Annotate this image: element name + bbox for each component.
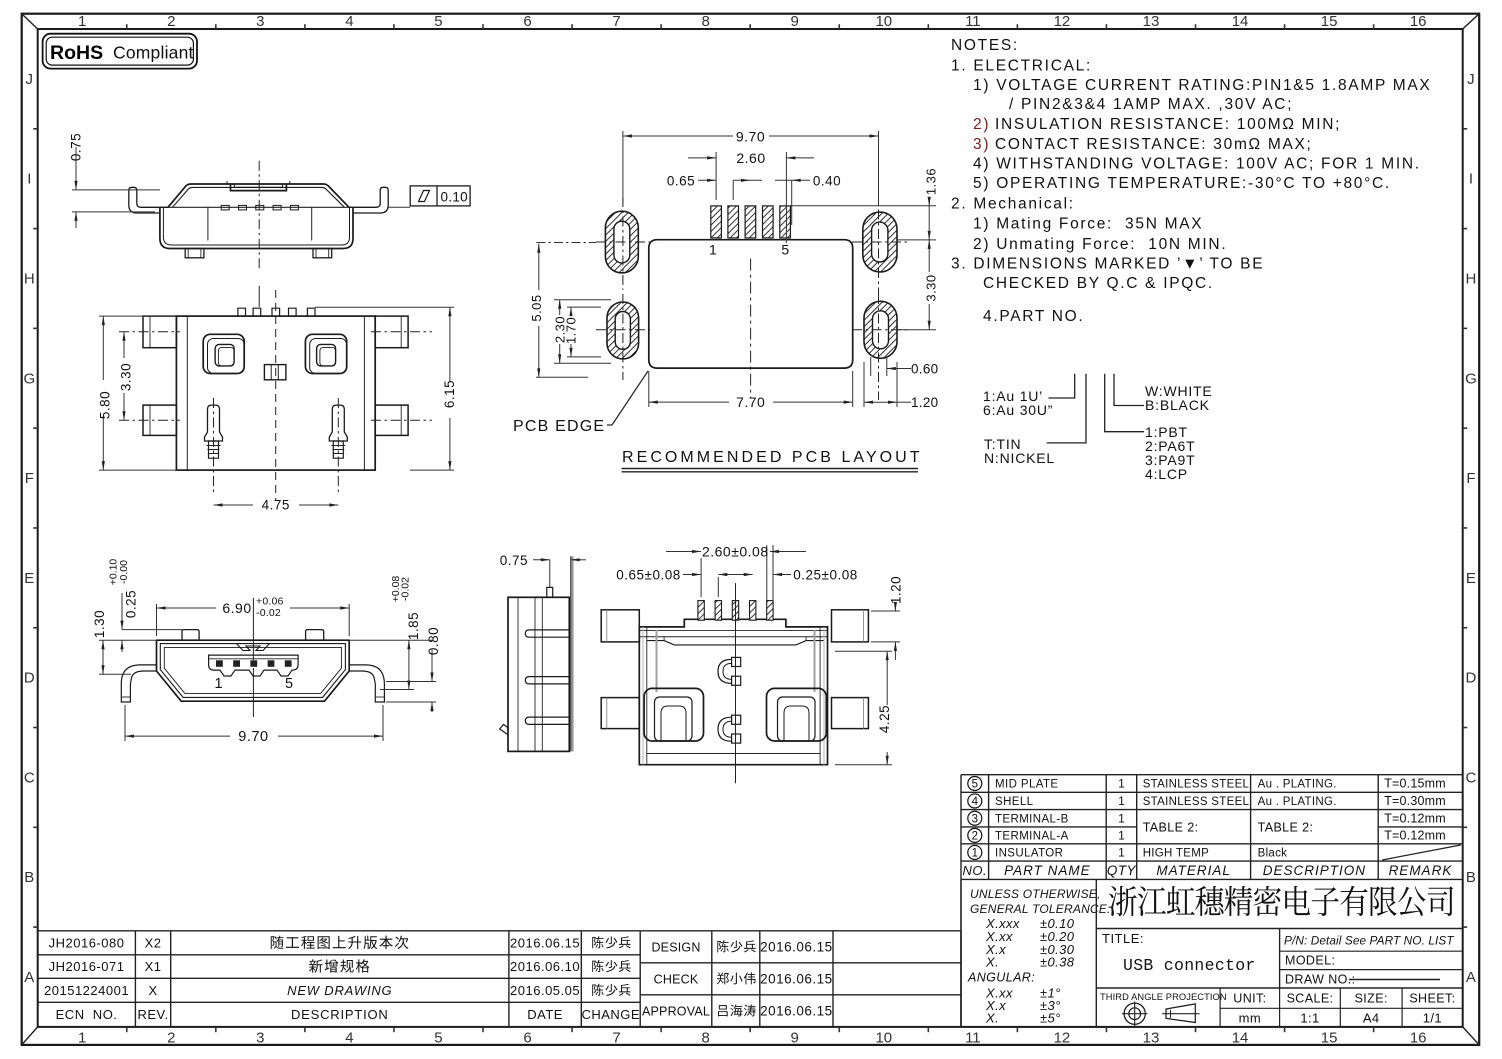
svg-text:0.75: 0.75 [69, 133, 84, 161]
svg-text:C: C [1465, 769, 1476, 786]
dim 2.60 pcb [715, 152, 717, 200]
svg-text:13: 13 [1143, 13, 1160, 30]
svg-text:N:NICKEL: N:NICKEL [984, 450, 1055, 466]
svg-text:2.60±0.08: 2.60±0.08 [702, 544, 769, 560]
svg-text:1.30: 1.30 [92, 610, 107, 638]
svg-text:Au . PLATING.: Au . PLATING. [1258, 779, 1337, 791]
dim 5.05 [536, 242, 596, 244]
svg-text:0.80: 0.80 [426, 627, 441, 655]
side top pin [547, 587, 553, 597]
svg-text:2016.06.15: 2016.06.15 [760, 939, 833, 954]
dim 1.30 left [99, 639, 157, 641]
svg-text:MODEL:: MODEL: [1285, 954, 1335, 968]
svg-text:NEW DRAWING: NEW DRAWING [287, 983, 392, 998]
v5 bottom inner line [647, 753, 820, 755]
svg-text:PCB EDGE: PCB EDGE [513, 418, 605, 435]
svg-text:1.20: 1.20 [889, 576, 904, 604]
svg-text:I: I [1469, 171, 1473, 188]
svg-text:0.25±0.08: 0.25±0.08 [793, 568, 857, 583]
svg-text:±0.38: ±0.38 [1040, 955, 1075, 970]
svg-text:2016.05.05: 2016.05.05 [510, 983, 580, 998]
terminal bumps on top edge [238, 308, 246, 316]
svg-text:CHECKED BY Q.C & IPQC.: CHECKED BY Q.C & IPQC. [983, 275, 1214, 292]
svg-text:G: G [23, 370, 35, 387]
svg-text:TABLE 2:: TABLE 2: [1258, 821, 1314, 835]
svg-text:2016.06.10: 2016.06.10 [510, 959, 580, 974]
svg-text:3.30: 3.30 [924, 274, 939, 301]
svg-text:11: 11 [965, 13, 981, 30]
dim 5.80 [99, 315, 176, 317]
svg-text:4: 4 [345, 1030, 353, 1047]
left solder pin [205, 405, 223, 441]
svg-text:13: 13 [1143, 1030, 1160, 1047]
svg-text:PART NAME: PART NAME [1004, 863, 1091, 878]
svg-text:0.65: 0.65 [667, 173, 695, 188]
svg-text:9: 9 [791, 1030, 799, 1047]
svg-text:1. ELECTRICAL:: 1. ELECTRICAL: [951, 58, 1092, 75]
svg-text:3: 3 [256, 1030, 264, 1047]
mounting feet [185, 249, 204, 258]
svg-text:1.85: 1.85 [406, 612, 421, 640]
svg-text:DESCRIPTION: DESCRIPTION [1263, 863, 1366, 878]
svg-text:J: J [26, 71, 34, 88]
svg-text:16: 16 [1410, 1030, 1427, 1047]
svg-text:5: 5 [285, 676, 293, 692]
dim 4.25 [835, 650, 892, 652]
svg-text:1: 1 [1118, 845, 1125, 859]
svg-text:4.75: 4.75 [262, 498, 290, 513]
contact slots [221, 205, 229, 210]
svg-text:MID PLATE: MID PLATE [995, 779, 1058, 791]
svg-text:1.36: 1.36 [924, 168, 939, 195]
leader to flatness box [388, 206, 410, 208]
RoHS Compliant badge [43, 34, 197, 69]
svg-text:UNIT:: UNIT: [1233, 992, 1266, 1006]
svg-text:INSULATOR: INSULATOR [995, 847, 1063, 859]
svg-text:12: 12 [1054, 1030, 1071, 1047]
right flange foot [349, 665, 384, 702]
svg-text:15: 15 [1321, 13, 1338, 30]
left hole [203, 334, 244, 373]
svg-text:12: 12 [1054, 13, 1071, 30]
v5 centerline [735, 583, 737, 783]
svg-text:1:1: 1:1 [1300, 1011, 1319, 1026]
pcb pads pins hatched [711, 206, 722, 238]
svg-text:X.: X. [985, 1010, 999, 1025]
svg-text:9.70: 9.70 [238, 729, 268, 745]
svg-text:TERMINAL-B: TERMINAL-B [995, 813, 1069, 825]
right mounting tabs [375, 316, 408, 348]
svg-text:T=0.30mm: T=0.30mm [1384, 794, 1446, 808]
svg-text:REV.: REV. [137, 1007, 168, 1022]
svg-text:0.65±0.08: 0.65±0.08 [616, 568, 680, 583]
svg-text:0.25: 0.25 [124, 590, 139, 618]
svg-text:E: E [1466, 570, 1476, 587]
svg-text:Au . PLATING.: Au . PLATING. [1258, 796, 1337, 808]
side bottom hook [500, 724, 509, 734]
svg-text:/ PIN2&3&4 1AMP MAX. ,30V AC;: / PIN2&3&4 1AMP MAX. ,30V AC; [1009, 96, 1293, 113]
svg-text:4) WITHSTANDING VOLTAGE: 100V: 4) WITHSTANDING VOLTAGE: 100V AC; FOR 1 … [973, 156, 1421, 173]
dim 9.70 view3 [124, 705, 126, 741]
svg-text:11: 11 [965, 1030, 981, 1047]
svg-text:A: A [1466, 969, 1476, 986]
svg-text:10: 10 [875, 1030, 892, 1047]
svg-text:1: 1 [78, 1030, 86, 1047]
svg-text:E: E [24, 570, 34, 587]
svg-text:0.60: 0.60 [911, 362, 938, 377]
svg-text:1.20: 1.20 [911, 395, 938, 410]
parts list table [961, 774, 1463, 776]
svg-text:7: 7 [612, 1030, 620, 1047]
svg-text:NO.: NO. [962, 863, 987, 878]
svg-text:9: 9 [791, 13, 799, 30]
dim 0.75 view4 [549, 560, 551, 587]
part-number legend leader lines [1049, 374, 1075, 398]
svg-text:+0.06: +0.06 [256, 596, 284, 608]
svg-text:D: D [24, 670, 35, 687]
svg-text:3.30: 3.30 [118, 363, 133, 391]
svg-text:4.25: 4.25 [877, 705, 892, 733]
svg-text:6: 6 [523, 1030, 531, 1047]
svg-text:2016.06.15: 2016.06.15 [760, 971, 833, 986]
dim 0.65±0.08 [683, 574, 701, 576]
svg-text:H: H [24, 270, 35, 287]
svg-text:6.90: 6.90 [222, 600, 251, 616]
v5 left tabs [601, 610, 639, 642]
body outline [160, 207, 353, 248]
svg-text:HIGH TEMP: HIGH TEMP [1143, 847, 1209, 859]
svg-text:1: 1 [1118, 811, 1125, 825]
svg-text:F: F [25, 470, 34, 487]
pcb outline [649, 240, 853, 368]
svg-text:0.75: 0.75 [500, 553, 528, 568]
svg-text:8: 8 [701, 1030, 709, 1047]
svg-text:CHANGE: CHANGE [581, 1007, 640, 1022]
svg-text:16: 16 [1410, 13, 1427, 30]
svg-text:H: H [1465, 270, 1476, 287]
v5 inner step line [647, 641, 825, 645]
dim 0.80 right [386, 681, 436, 683]
dim 0.60 pcb [870, 357, 872, 376]
svg-text:5: 5 [781, 242, 789, 258]
svg-text:0.10: 0.10 [441, 190, 468, 205]
v5 left hole [644, 688, 703, 741]
pad centerlines [622, 197, 624, 290]
pad top-left [605, 211, 638, 273]
svg-text:3): 3) [973, 136, 990, 153]
shell outer [157, 640, 350, 701]
svg-text:1: 1 [214, 676, 222, 692]
svg-text:I: I [27, 171, 31, 188]
dim pitch arrows pcb [732, 180, 734, 200]
design/check/approval table [640, 930, 961, 932]
v5 center clips [732, 657, 741, 666]
svg-text:Black: Black [1258, 847, 1288, 859]
svg-text:DESIGN: DESIGN [651, 940, 700, 954]
svg-text:JH2016-080: JH2016-080 [49, 935, 125, 950]
svg-text:5) OPERATING TEMPERATURE:-30°C: 5) OPERATING TEMPERATURE:-30°C TO +80°C. [973, 175, 1391, 192]
dim 0.75 left [72, 189, 160, 191]
view2 center dashed line [275, 290, 277, 500]
svg-text:5.80: 5.80 [98, 391, 113, 419]
svg-text:INSULATION RESISTANCE: 100MΩ M: INSULATION RESISTANCE: 100MΩ MIN; [995, 116, 1341, 133]
svg-text:USB connector: USB connector [1123, 956, 1256, 975]
dim 3.30 view2 [123, 332, 125, 358]
svg-text:SIZE:: SIZE: [1355, 992, 1388, 1006]
pad bottom-right [864, 301, 897, 358]
svg-text:10: 10 [875, 13, 892, 30]
svg-text:2016.06.15: 2016.06.15 [760, 1003, 833, 1018]
svg-text:STAINLESS STEEL: STAINLESS STEEL [1143, 796, 1250, 808]
svg-text:Compliant: Compliant [113, 43, 194, 63]
svg-text:5: 5 [434, 1030, 442, 1047]
ecn change column [592, 936, 604, 948]
pin centerlines [213, 398, 215, 493]
svg-text:GENERAL TOLERANCE:: GENERAL TOLERANCE: [970, 902, 1111, 916]
dim 2.30 pcb [554, 299, 611, 301]
svg-text:2: 2 [167, 1030, 175, 1047]
svg-text:-0.00: -0.00 [118, 560, 130, 584]
svg-text:1) VOLTAGE CURRENT RATING:PIN1: 1) VOLTAGE CURRENT RATING:PIN1&5 1.8AMP … [973, 77, 1431, 94]
dim 1.85 right [349, 639, 432, 641]
tongue with contacts [209, 655, 299, 676]
svg-text:4.PART NO.: 4.PART NO. [983, 308, 1084, 325]
svg-text:TERMINAL-A: TERMINAL-A [995, 830, 1069, 842]
projection symbol cone [1166, 1004, 1195, 1023]
svg-text:T=0.15mm: T=0.15mm [1384, 777, 1446, 791]
svg-text:5: 5 [972, 779, 978, 791]
svg-text:ANGULAR:: ANGULAR: [967, 971, 1035, 985]
svg-text:C: C [24, 769, 35, 786]
dim 6.15 [315, 306, 454, 308]
parts list item numbers [968, 777, 982, 791]
pad top-right [863, 212, 897, 272]
svg-text:SCALE:: SCALE: [1287, 992, 1334, 1006]
v5 right tabs [832, 610, 869, 642]
svg-text:NOTES:: NOTES: [951, 37, 1019, 54]
right flange arm [349, 187, 388, 213]
svg-text:P/N: Detail See PART NO. LIST: P/N: Detail See PART NO. LIST [1284, 934, 1454, 948]
frame corner diagonals [22, 14, 38, 29]
svg-text:DRAW NO.:: DRAW NO.: [1285, 973, 1356, 987]
svg-text:CONTACT RESISTANCE: 30mΩ MAX;: CONTACT RESISTANCE: 30mΩ MAX; [995, 136, 1313, 153]
v5 right hole [767, 688, 827, 741]
dim 1.70 pcb [567, 306, 601, 308]
right solder pin [329, 405, 347, 441]
insulator remark diagonal [1382, 845, 1461, 860]
svg-text:CHECK: CHECK [654, 972, 699, 986]
svg-text:SHEET:: SHEET: [1409, 992, 1455, 1006]
svg-text:THIRD ANGLE PROJECTION: THIRD ANGLE PROJECTION [1100, 992, 1227, 1002]
svg-text:6.15: 6.15 [442, 380, 457, 408]
svg-text:2) Unmating Force: 10N MIN.: 2) Unmating Force: 10N MIN. [973, 236, 1227, 253]
svg-text:1: 1 [709, 242, 717, 258]
v5 body outline with raised pin platform [639, 619, 827, 764]
svg-text:6:Au 30U”: 6:Au 30U” [983, 402, 1053, 418]
svg-text:MATERIAL: MATERIAL [1156, 863, 1231, 878]
svg-text:REMARK: REMARK [1389, 863, 1453, 878]
company name (Chinese) [1109, 886, 1137, 916]
dim 2.60±0.08 [666, 551, 701, 553]
dim 3.30 pcb [897, 329, 936, 331]
svg-text:1/1: 1/1 [1423, 1011, 1442, 1026]
svg-text:X: X [148, 983, 157, 998]
svg-text:TABLE 2:: TABLE 2: [1143, 821, 1199, 835]
svg-text:4: 4 [345, 13, 353, 30]
svg-text:3: 3 [972, 813, 978, 825]
right hole [305, 334, 346, 373]
side tabs [525, 630, 569, 637]
dim 0.25±0.08 [773, 574, 791, 576]
pad bottom-left [607, 302, 639, 359]
svg-text:DESCRIPTION: DESCRIPTION [291, 1007, 389, 1022]
side body [508, 597, 569, 751]
svg-text:SHELL: SHELL [995, 796, 1034, 808]
svg-text:F: F [1466, 470, 1475, 487]
svg-text:2: 2 [167, 13, 175, 30]
svg-text:A4: A4 [1363, 1011, 1380, 1026]
svg-text:4:LCP: 4:LCP [1145, 466, 1188, 482]
svg-text:15: 15 [1321, 1030, 1338, 1047]
shell top notch [231, 184, 287, 191]
svg-text:B: B [1466, 869, 1476, 886]
dim 7.70 [648, 371, 650, 407]
svg-text:14: 14 [1232, 1030, 1249, 1047]
svg-text:J: J [1467, 71, 1475, 88]
svg-text:G: G [1465, 370, 1477, 387]
pcb center dashdot [750, 259, 752, 399]
svg-text:3: 3 [256, 13, 264, 30]
svg-text:5.05: 5.05 [529, 294, 544, 321]
svg-text:TITLE:: TITLE: [1102, 931, 1144, 946]
svg-text:5: 5 [434, 13, 442, 30]
svg-text:X1: X1 [145, 959, 162, 974]
svg-text:-0.02: -0.02 [256, 607, 281, 619]
svg-text:1) Mating Force: 35N MAX: 1) Mating Force: 35N MAX [973, 216, 1203, 233]
svg-text:B:BLACK: B:BLACK [1145, 397, 1210, 413]
svg-text:D: D [1465, 670, 1476, 687]
tab centerlines [119, 331, 180, 333]
top center clip [237, 644, 270, 651]
v5 pins [698, 601, 704, 621]
svg-text:2): 2) [973, 116, 990, 133]
svg-text:0.40: 0.40 [813, 173, 841, 188]
view3 centerline [252, 598, 254, 660]
dim 9.70 pcb [622, 131, 624, 205]
svg-text:T=0.12mm: T=0.12mm [1384, 828, 1446, 842]
dim 1.20 v5 [871, 610, 900, 612]
svg-text:APPROVAL: APPROVAL [642, 1004, 710, 1018]
svg-text:1: 1 [1118, 777, 1125, 791]
svg-text:T=0.12mm: T=0.12mm [1384, 811, 1446, 825]
view1 centerline [258, 161, 260, 269]
svg-text:X2: X2 [145, 935, 162, 950]
svg-text:A: A [24, 969, 34, 986]
svg-text:JH2016-071: JH2016-071 [49, 959, 125, 974]
svg-text:1: 1 [78, 13, 86, 30]
svg-text:-0.02: -0.02 [400, 577, 412, 601]
svg-text:1: 1 [972, 848, 978, 860]
dim 4.75 [214, 504, 254, 506]
dim 0.25 left [122, 629, 182, 631]
svg-text:20151224001: 20151224001 [44, 983, 129, 998]
svg-text:1: 1 [1118, 794, 1125, 808]
v5 pin extension lines [700, 558, 702, 597]
svg-text:6: 6 [523, 13, 531, 30]
svg-text:1.70: 1.70 [564, 317, 579, 344]
svg-text:RECOMMENDED PCB LAYOUT: RECOMMENDED PCB LAYOUT [622, 449, 923, 466]
svg-text:9.70: 9.70 [736, 129, 765, 145]
dim 0.40 pcb [791, 180, 793, 225]
center latch [264, 365, 286, 380]
svg-text:7: 7 [612, 13, 620, 30]
svg-text:X.: X. [985, 955, 999, 970]
left flange foot [121, 665, 156, 702]
svg-text:RoHS: RoHS [50, 42, 103, 64]
svg-text:2: 2 [972, 831, 978, 843]
projection symbol circle target [1124, 1003, 1145, 1024]
title block grid [960, 879, 962, 1027]
svg-text:QTY: QTY [1107, 863, 1137, 878]
svg-text:2. Mechanical:: 2. Mechanical: [951, 195, 1075, 212]
svg-text:8: 8 [701, 13, 709, 30]
svg-text:14: 14 [1232, 13, 1249, 30]
dim 6.90 [156, 604, 158, 636]
svg-text:4: 4 [972, 796, 979, 808]
dim 0.65 pcb [698, 179, 716, 181]
svg-text:3. DIMENSIONS MARKED ’▼’ TO BE: 3. DIMENSIONS MARKED ’▼’ TO BE [951, 256, 1264, 273]
svg-text:2016.06.15: 2016.06.15 [510, 935, 580, 950]
svg-text:DATE: DATE [527, 1007, 563, 1022]
ecn revision table [38, 930, 641, 932]
bottom view body [176, 316, 375, 470]
left flange arm [129, 187, 168, 213]
dim 1.20 pcb [863, 362, 865, 407]
shell top outline [168, 184, 349, 207]
left mounting tabs [143, 316, 176, 348]
svg-text:±5°: ±5° [1040, 1010, 1061, 1025]
svg-text:STAINLESS STEEL: STAINLESS STEEL [1143, 779, 1250, 791]
top tabs [182, 630, 199, 641]
pcb edge gray band [571, 556, 574, 751]
flatness callout box [410, 186, 470, 206]
svg-text:2.60: 2.60 [736, 150, 765, 166]
dim 1.36 [790, 205, 936, 207]
svg-text:7.70: 7.70 [736, 394, 765, 410]
svg-text:1: 1 [1118, 828, 1125, 842]
svg-text:UNLESS OTHERWISE,: UNLESS OTHERWISE, [970, 887, 1101, 901]
svg-text:mm: mm [1239, 1011, 1261, 1026]
body inner walls [207, 207, 209, 240]
svg-text:B: B [24, 869, 34, 886]
svg-text:ECN NO.: ECN NO. [56, 1007, 118, 1022]
v5 gray shading lines [656, 630, 658, 692]
